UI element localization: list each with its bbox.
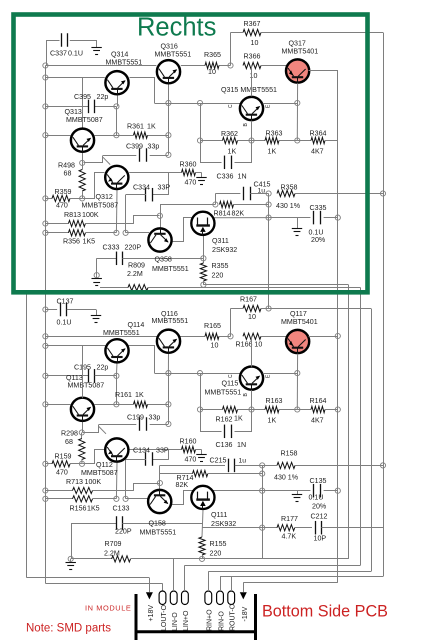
svg-text:Q115: Q115 — [222, 380, 239, 388]
resistor R359 — [45, 188, 82, 210]
svg-text:C334: C334 — [133, 184, 150, 192]
svg-text:R361: R361 — [127, 123, 144, 131]
svg-text:R158: R158 — [281, 450, 298, 458]
node R814 left — [213, 202, 218, 207]
wire C334 riser — [153, 173, 169, 195]
node rail-b1 — [43, 334, 48, 339]
svg-text:C399: C399 — [126, 143, 143, 151]
svg-text:+18V: +18V — [148, 605, 155, 622]
wire Q314 collector elbow — [130, 78, 155, 104]
svg-text:R367: R367 — [244, 20, 261, 28]
transistor Q314 — [105, 51, 142, 96]
svg-text:2.2M: 2.2M — [104, 550, 120, 558]
svg-text:20%: 20% — [311, 236, 326, 244]
svg-text:430 1%: 430 1% — [274, 474, 299, 482]
node R355 top — [201, 256, 206, 261]
node R161 left — [114, 402, 119, 407]
transistor Q312 — [82, 166, 129, 210]
wire Q112 collector line — [129, 449, 181, 451]
svg-text:Q317: Q317 — [289, 40, 306, 48]
capacitor C336 — [201, 141, 252, 181]
svg-text:430 1%: 430 1% — [276, 202, 301, 210]
wire Q115 right — [263, 373, 298, 375]
svg-text:R298: R298 — [61, 430, 78, 438]
svg-text:82K: 82K — [232, 210, 245, 218]
svg-text:MMBT5551: MMBT5551 — [152, 317, 189, 325]
svg-text:1K: 1K — [234, 415, 243, 423]
capacitor C335 — [309, 204, 327, 244]
capacitor C334 — [126, 184, 171, 202]
svg-text:10: 10 — [208, 68, 216, 76]
wire rail E — [220, 33, 384, 577]
transistor Q358 — [148, 228, 188, 273]
transistor Q112 — [81, 438, 128, 477]
svg-text:ROUT-O: ROUT-O — [230, 603, 237, 631]
svg-text:R164: R164 — [310, 397, 327, 405]
svg-text:Q112: Q112 — [96, 461, 113, 469]
node Q117 rail — [335, 333, 340, 338]
svg-text:Q111: Q111 — [211, 511, 227, 519]
wire R156 to Q158 — [126, 498, 149, 500]
wire Q312 base — [83, 173, 105, 199]
node R356 b — [123, 230, 128, 235]
node Q358 col node — [157, 213, 162, 218]
svg-text:C336: C336 — [217, 173, 234, 181]
pin LIN-O — [170, 591, 179, 631]
svg-text:R358: R358 — [281, 184, 298, 192]
svg-text:IN MODULE: IN MODULE — [85, 604, 131, 613]
svg-text:Q314: Q314 — [111, 51, 128, 59]
svg-text:1K5: 1K5 — [83, 238, 96, 246]
resistor R162 — [200, 406, 252, 423]
svg-text:LIN-O: LIN-O — [172, 612, 179, 631]
node C333 gnd — [94, 273, 99, 278]
node rail-b5 — [43, 461, 48, 466]
svg-text:100K: 100K — [85, 478, 102, 486]
node R156 a — [114, 496, 119, 501]
resistor R713 — [45, 478, 133, 494]
svg-text:C: C — [228, 374, 234, 378]
svg-text:2SK932: 2SK932 — [212, 246, 237, 254]
resistor R809 — [100, 262, 361, 291]
green boundary frame "Rechts" section — [14, 15, 368, 293]
wire C415 stub — [215, 194, 240, 205]
wire C395 bus — [45, 106, 116, 108]
svg-text:82K: 82K — [176, 481, 189, 489]
node rail-b7 — [43, 496, 48, 501]
wire Q313 collector — [82, 78, 84, 128]
svg-text:470: 470 — [185, 179, 197, 187]
transistor Q317 — [282, 40, 319, 84]
wire RIN+O riser — [208, 572, 210, 592]
node R498 top — [80, 160, 85, 165]
wire Q158 collector — [160, 465, 193, 490]
svg-text:R163: R163 — [266, 397, 283, 405]
svg-text:1K: 1K — [135, 391, 144, 399]
resistor R361 — [116, 123, 168, 139]
node R362 right — [249, 138, 254, 143]
capacitor C415 — [244, 181, 271, 201]
wire Q111 gate — [172, 491, 198, 505]
svg-text:1u: 1u — [239, 458, 247, 465]
transistor Q313 — [65, 108, 103, 153]
node Q315 riser top — [197, 100, 202, 105]
svg-text:Q158: Q158 — [149, 520, 166, 528]
svg-text:C333: C333 — [103, 244, 120, 252]
resistor R714 — [176, 471, 263, 490]
svg-text:R813: R813 — [64, 211, 81, 219]
resistor R298 — [61, 417, 85, 464]
resistor R362 — [200, 130, 252, 156]
wire Q116 row — [45, 336, 157, 338]
svg-text:10: 10 — [250, 72, 258, 80]
wire rail A left — [243, 582, 337, 584]
svg-text:Note: SMD parts: Note: SMD parts — [26, 623, 111, 635]
svg-text:470: 470 — [185, 456, 197, 464]
svg-text:R167: R167 — [240, 296, 257, 304]
svg-text:C337: C337 — [50, 50, 67, 58]
wire Q316 emitter column — [168, 84, 170, 155]
svg-text:C212: C212 — [311, 513, 328, 521]
node R161 right — [166, 402, 171, 407]
wire Q311 source — [203, 236, 205, 258]
svg-text:R156: R156 — [70, 505, 87, 513]
wire C199 left column — [83, 425, 107, 434]
capacitor C199 — [99, 414, 169, 431]
svg-text:Q358: Q358 — [155, 256, 172, 264]
wire col268 — [268, 194, 270, 309]
svg-text:MMBT5087: MMBT5087 — [82, 202, 119, 210]
node C335 right — [335, 215, 340, 220]
svg-text:MMBT5551: MMBT5551 — [140, 529, 177, 537]
transistor Q158 — [140, 489, 177, 536]
node R355 bottom — [201, 282, 206, 287]
pin ROUT-O — [228, 591, 237, 631]
resistor R498 — [58, 153, 85, 199]
wire rail C left — [185, 565, 361, 567]
svg-text:R356: R356 — [63, 238, 80, 246]
resistor R367 — [231, 20, 384, 47]
wire Q114 emitter column — [115, 363, 118, 405]
wire C333 gnd col — [96, 258, 98, 275]
resistor R358 — [276, 184, 383, 211]
pin LOUT-O — [159, 591, 168, 631]
wire R713 jog — [134, 484, 160, 491]
transistor Q114 — [103, 321, 144, 363]
svg-text:R359: R359 — [55, 188, 72, 196]
wire Q317 emitter column — [296, 83, 298, 140]
svg-text:MMBT5551: MMBT5551 — [103, 329, 140, 337]
wire Q358 collector — [160, 205, 215, 228]
node rail-b6 — [43, 488, 48, 493]
svg-text:MMBT5551: MMBT5551 — [155, 51, 192, 59]
node R361 left — [114, 133, 119, 138]
wire C134 riser — [153, 450, 169, 460]
node R158 rail — [380, 463, 385, 468]
node rail-2 — [43, 75, 48, 80]
node C215 right — [260, 463, 265, 468]
svg-text:22p: 22p — [97, 364, 109, 372]
svg-text:68: 68 — [64, 170, 72, 178]
svg-text:22p: 22p — [97, 93, 109, 101]
svg-text:C395: C395 — [74, 93, 91, 101]
wire Q115 collector — [251, 336, 253, 366]
svg-text:220P: 220P — [115, 528, 132, 536]
red label Note SMD parts — [26, 623, 111, 635]
wire Q116 emitter column — [167, 353, 169, 424]
capacitor C133 — [71, 505, 202, 536]
resistor R163 — [252, 397, 298, 425]
connector box — [136, 594, 256, 640]
resistor R709 — [104, 540, 131, 562]
node R714 right — [260, 471, 265, 476]
svg-text:-18V: -18V — [242, 606, 249, 621]
svg-text:MMBT5087: MMBT5087 — [81, 469, 118, 477]
resistor R167 — [231, 296, 372, 337]
svg-text:2.2M: 2.2M — [127, 270, 143, 278]
svg-text:C133: C133 — [113, 505, 130, 513]
svg-text:C136: C136 — [216, 441, 233, 449]
wire ROUT-O riser — [231, 577, 233, 592]
svg-text:LOUT-O: LOUT-O — [161, 604, 168, 631]
ground C337 — [91, 40, 101, 55]
wire Q311 drain — [208, 217, 269, 219]
svg-text:MMBT5087: MMBT5087 — [66, 116, 103, 124]
svg-text:1K: 1K — [228, 148, 237, 156]
transistor Q111 — [191, 486, 236, 528]
transistor Q311 — [191, 212, 237, 254]
svg-text:Q312: Q312 — [96, 193, 113, 201]
node Q158 col node — [157, 480, 162, 485]
capacitor C134 — [126, 447, 169, 466]
resistor R177 — [202, 515, 312, 541]
resistor R813 — [45, 211, 133, 227]
svg-text:MMBT5551: MMBT5551 — [152, 265, 189, 273]
node R298 top — [79, 430, 84, 435]
svg-text:0.1U: 0.1U — [68, 50, 83, 58]
svg-text:Bottom Side PCB: Bottom Side PCB — [262, 603, 388, 621]
node rail-b3 — [43, 373, 48, 378]
node C135 right — [335, 488, 340, 493]
wire R355 out line — [203, 284, 348, 286]
svg-text:C335: C335 — [310, 204, 327, 212]
wire Q111 source — [202, 510, 203, 537]
svg-text:R365: R365 — [204, 51, 221, 59]
svg-text:220P: 220P — [125, 244, 142, 252]
node Q116-emitter bus — [166, 371, 171, 376]
svg-text:220: 220 — [210, 550, 222, 558]
wire R356 to Q358 — [126, 232, 149, 234]
svg-text:R713: R713 — [66, 478, 83, 486]
wire Q112 base — [83, 450, 105, 464]
svg-text:LIN+O: LIN+O — [183, 610, 190, 631]
ground R160 — [196, 450, 206, 462]
node rail-6 — [43, 221, 48, 226]
node C399 right — [166, 152, 171, 157]
resistor R356 — [45, 230, 116, 246]
wire Q312 emitter column — [115, 190, 118, 233]
node R156 b — [123, 496, 128, 501]
transistor Q315 — [221, 86, 277, 121]
svg-text:Rechts: Rechts — [137, 14, 216, 42]
svg-text:C135: C135 — [310, 477, 327, 485]
node col268 c335 — [266, 215, 271, 220]
resistor R814 — [214, 201, 269, 217]
resistor R161 — [95, 391, 169, 407]
svg-text:1K: 1K — [147, 123, 156, 131]
resistor R156 — [45, 496, 116, 513]
wire Q113 collector — [82, 346, 84, 398]
capacitor C337 — [50, 33, 83, 57]
red label Bottom Side PCB — [262, 603, 388, 621]
capacitor C212 — [311, 513, 384, 543]
wire R367 riser — [230, 33, 232, 66]
node R366 R365 junction — [228, 63, 233, 68]
svg-text:68: 68 — [65, 438, 73, 446]
node rail-b2 — [43, 343, 48, 348]
svg-text:1K5: 1K5 — [87, 505, 100, 513]
wire C133 gnd col — [71, 523, 73, 559]
wire row140 riser — [200, 103, 202, 141]
red label IN MODULE — [85, 604, 131, 613]
wire R361 link — [95, 135, 134, 137]
wire row409 riser — [200, 373, 202, 409]
wire C134 left column — [125, 459, 127, 499]
svg-text:1K: 1K — [268, 148, 277, 156]
wire Q315 right — [263, 103, 298, 105]
title Rechts — [137, 14, 216, 42]
capacitor C137 — [45, 298, 96, 327]
wire rail A — [337, 141, 339, 583]
wire Q117 emitter column — [296, 354, 298, 410]
wire Q115 base bus — [155, 373, 240, 375]
svg-text:10: 10 — [248, 313, 256, 321]
svg-text:RIN-O: RIN-O — [218, 611, 225, 631]
transistor Q115 — [205, 367, 264, 397]
svg-text:33P: 33P — [158, 184, 171, 192]
node C137 rail — [43, 307, 48, 312]
node C199 right — [166, 421, 171, 426]
node R155 bottom — [199, 556, 204, 561]
wire Q315 base bus — [155, 103, 240, 105]
capacitor C215 — [160, 457, 262, 473]
node rail-5 — [43, 196, 48, 201]
svg-text:4K7: 4K7 — [311, 417, 324, 425]
wire Q314 base bus — [45, 77, 104, 79]
svg-text:4.7K: 4.7K — [282, 533, 297, 541]
node R162 left — [197, 407, 202, 412]
wire Q117 right — [309, 336, 338, 338]
wire outer left rail — [27, 293, 150, 578]
svg-text:Q311: Q311 — [212, 237, 229, 245]
node rail-top — [43, 63, 48, 68]
node R159 right — [79, 461, 84, 466]
node rail-b4 — [43, 402, 48, 407]
transistor Q116 — [152, 310, 189, 354]
svg-text:1K: 1K — [268, 417, 277, 425]
svg-text:R364: R364 — [310, 130, 327, 138]
wire C334 left column — [125, 195, 127, 233]
node Q115 riser top — [197, 371, 202, 376]
svg-text:MMBT5087: MMBT5087 — [68, 382, 105, 390]
node rail-7 — [43, 230, 48, 235]
node R165 right — [228, 334, 233, 339]
svg-text:0.1U: 0.1U — [57, 319, 72, 327]
svg-text:Q315 MMBT5551: Q315 MMBT5551 — [221, 86, 277, 94]
svg-text:2SK932: 2SK932 — [211, 520, 236, 528]
wire C337 branch — [47, 41, 97, 66]
wire C399 left column — [84, 156, 111, 165]
node R814 right — [266, 202, 271, 207]
wire RIN-O riser — [220, 577, 222, 592]
svg-text:33p: 33p — [149, 414, 161, 422]
resistor R365 — [204, 51, 221, 76]
transistor Q117 — [281, 310, 318, 354]
svg-text:R159: R159 — [55, 453, 72, 461]
wire col262 — [262, 465, 264, 559]
svg-text:MMBT5551: MMBT5551 — [205, 389, 242, 397]
capacitor C399 — [103, 143, 168, 162]
node R362 left — [197, 138, 202, 143]
wire C135 row — [262, 490, 338, 492]
resistor R355 — [200, 258, 228, 284]
resistor R158 — [262, 450, 383, 482]
wire LIN-O riser — [173, 559, 175, 591]
capacitor C395 — [74, 93, 108, 113]
svg-text:Q117: Q117 — [290, 310, 307, 318]
ground C335 — [292, 218, 302, 236]
ground C135 — [292, 491, 302, 502]
node R167 col268 — [266, 306, 271, 311]
svg-text:MMBT5401: MMBT5401 — [281, 318, 318, 326]
svg-text:220: 220 — [212, 272, 224, 280]
transistor Q113 — [66, 374, 104, 422]
svg-text:C137: C137 — [57, 298, 74, 306]
svg-text:R366: R366 — [244, 53, 261, 61]
wire rail D — [208, 309, 371, 572]
svg-text:MMBT5551: MMBT5551 — [106, 59, 143, 67]
resistor R364 — [297, 130, 338, 156]
svg-text:10: 10 — [251, 39, 259, 47]
capacitor C333 — [97, 244, 204, 266]
wire Q111 drain — [208, 490, 262, 492]
svg-text:33p: 33p — [148, 143, 160, 151]
svg-text:100K: 100K — [82, 211, 99, 219]
resistor R164 — [297, 397, 338, 425]
pin +18V arrow — [146, 592, 155, 621]
wire LIN+O riser — [184, 565, 186, 591]
resistor R165 — [204, 322, 231, 350]
node Q117 emitter — [295, 371, 300, 376]
resistor R159 — [45, 453, 82, 477]
ground C333 node — [92, 275, 102, 285]
node col262 c135 — [260, 488, 265, 493]
node Q114 emitter — [114, 373, 119, 378]
wire Q112 emitter column — [115, 462, 118, 499]
svg-text:4K7: 4K7 — [311, 148, 324, 156]
svg-text:R360: R360 — [180, 161, 197, 169]
node R163 right — [295, 407, 300, 412]
node rail-4 — [43, 133, 48, 138]
wire left rail — [45, 66, 47, 584]
svg-text:R166 10: R166 10 — [236, 341, 263, 349]
resistor R166 — [236, 333, 288, 348]
svg-text:R177: R177 — [281, 515, 298, 523]
svg-text:R363: R363 — [266, 130, 283, 138]
wire Q115 emitter — [251, 390, 253, 409]
node R358 rail — [380, 191, 385, 196]
svg-text:470: 470 — [56, 202, 68, 210]
